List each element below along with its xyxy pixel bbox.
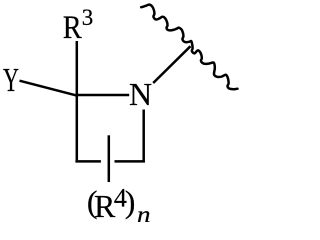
svg-text:R: R xyxy=(63,10,82,46)
ring right edge N-C4 xyxy=(142,110,145,163)
bond N-CH2 to attachment xyxy=(153,46,190,83)
ring top edge C2-N xyxy=(77,94,129,97)
ring bottom edge right C4 side xyxy=(115,160,145,163)
svg-text:): ) xyxy=(125,184,136,220)
svg-text:N: N xyxy=(129,76,152,112)
squiggle attachment bond xyxy=(141,5,237,90)
svg-text:R: R xyxy=(94,188,116,222)
bond C2-R3 and ring left edge C2-C3 xyxy=(76,41,79,160)
svg-text:3: 3 xyxy=(82,5,94,30)
bond (R4)n floating xyxy=(108,135,111,182)
bond C2-Y xyxy=(20,81,78,96)
svg-text:n: n xyxy=(137,202,151,222)
ring bottom edge left C3 side xyxy=(75,160,101,163)
svg-text:Y: Y xyxy=(3,62,19,99)
